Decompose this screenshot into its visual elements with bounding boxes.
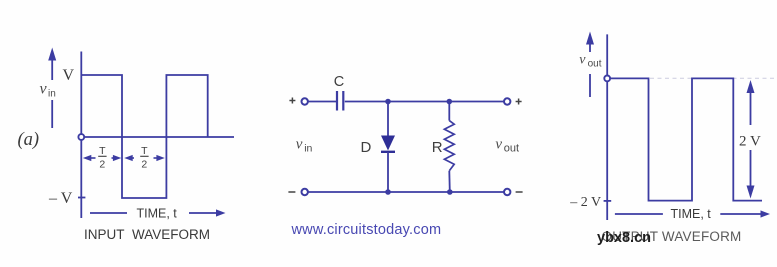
svg-text:out: out	[504, 143, 519, 155]
origin node circle (output)	[604, 76, 610, 82]
time arrow (input)	[189, 209, 226, 216]
-2V tick on axis	[604, 200, 612, 202]
vout axis arrow (lower segment)	[589, 74, 591, 97]
svg-text:T: T	[99, 145, 106, 157]
plus sign (top-right terminal)	[516, 99, 522, 105]
wire: node A to node B	[388, 101, 449, 103]
input square wave	[81, 75, 207, 198]
minus sign (bottom-left terminal)	[288, 191, 295, 193]
svg-text:out: out	[588, 59, 602, 70]
svg-text:2: 2	[99, 159, 105, 171]
2V dimension arrow (lower half, head down)	[750, 150, 752, 187]
svg-text:v: v	[579, 53, 586, 68]
diode D cathode bar	[381, 151, 395, 153]
T/2 dimension arrow left (second half-period)	[129, 157, 134, 159]
svg-text:in: in	[48, 89, 56, 100]
minus sign (bottom-right terminal)	[516, 191, 523, 193]
wire: capacitor to node A	[345, 101, 388, 103]
origin node circle (input)	[78, 134, 84, 140]
label T/2 (first)	[99, 145, 106, 171]
svg-text:TIME, t: TIME, t	[671, 207, 712, 221]
svg-text:TIME, t: TIME, t	[137, 207, 178, 221]
bottom junction dot (diode)	[385, 189, 391, 195]
output terminal top (circle)	[504, 98, 510, 104]
bottom junction dot (resistor)	[447, 189, 453, 195]
T/2 dimension arrow right (second half-period)	[154, 157, 160, 159]
input terminal top (circle)	[302, 98, 308, 104]
T/2 dimension arrow right (first half-period)	[112, 157, 117, 159]
diode D triangle	[381, 136, 395, 151]
vin axis arrow (lower segment)	[51, 100, 53, 128]
zero level dashed reference line	[650, 77, 776, 79]
svg-text:– V: – V	[48, 190, 73, 207]
time axis lead line (input)	[90, 212, 127, 214]
svg-text:2: 2	[141, 159, 147, 171]
plus sign (top-left terminal)	[289, 98, 295, 104]
svg-text:ybx8.cn: ybx8.cn	[597, 230, 651, 246]
svg-text:in: in	[304, 143, 312, 155]
svg-text:v: v	[296, 137, 303, 153]
svg-text:2 V: 2 V	[739, 134, 761, 150]
capacitor C plates	[336, 91, 338, 111]
diode D cathode wire	[387, 152, 389, 192]
node A junction dot (top of diode)	[385, 99, 391, 105]
bottom rail wire	[308, 191, 504, 193]
vout axis arrow (upper segment with head)	[586, 32, 594, 53]
time axis lead line (output)	[615, 213, 663, 215]
input graph time axis	[81, 136, 234, 138]
svg-text:v: v	[40, 81, 48, 98]
vin axis arrow (upper segment with head)	[48, 48, 56, 81]
svg-text:(a): (a)	[18, 130, 40, 150]
T/2 dimension arrow left (first half-period)	[83, 155, 165, 161]
svg-text:C: C	[334, 74, 344, 90]
input graph vertical axis	[80, 52, 82, 219]
output square wave	[607, 78, 762, 200]
node B junction dot (top of resistor)	[447, 99, 453, 105]
output terminal bottom (circle)	[504, 189, 510, 195]
svg-text:D: D	[361, 139, 372, 156]
resistor R: bottom wire	[448, 171, 451, 192]
diode D: anode wire	[387, 102, 389, 137]
svg-text:INPUT WAVEFORM: INPUT WAVEFORM	[84, 227, 210, 242]
2V dimension arrow (upper half, head up)	[747, 80, 755, 199]
svg-text:– 2 V: – 2 V	[569, 195, 601, 210]
wire: terminal to capacitor	[308, 101, 336, 103]
svg-text:www.circuitstoday.com: www.circuitstoday.com	[291, 222, 442, 238]
output graph vertical axis	[606, 34, 608, 220]
time arrow (output)	[720, 210, 770, 217]
wire: node B to output terminal	[449, 101, 504, 103]
-V tick on axis	[78, 197, 85, 199]
resistor R: top wire	[448, 102, 450, 121]
svg-text:T: T	[141, 145, 148, 157]
svg-text:R: R	[432, 139, 443, 156]
svg-text:v: v	[495, 137, 502, 153]
label T/2 (second)	[141, 145, 148, 171]
input terminal bottom (circle)	[302, 189, 308, 195]
svg-text:V: V	[63, 67, 75, 84]
resistor R zigzag	[444, 121, 454, 171]
